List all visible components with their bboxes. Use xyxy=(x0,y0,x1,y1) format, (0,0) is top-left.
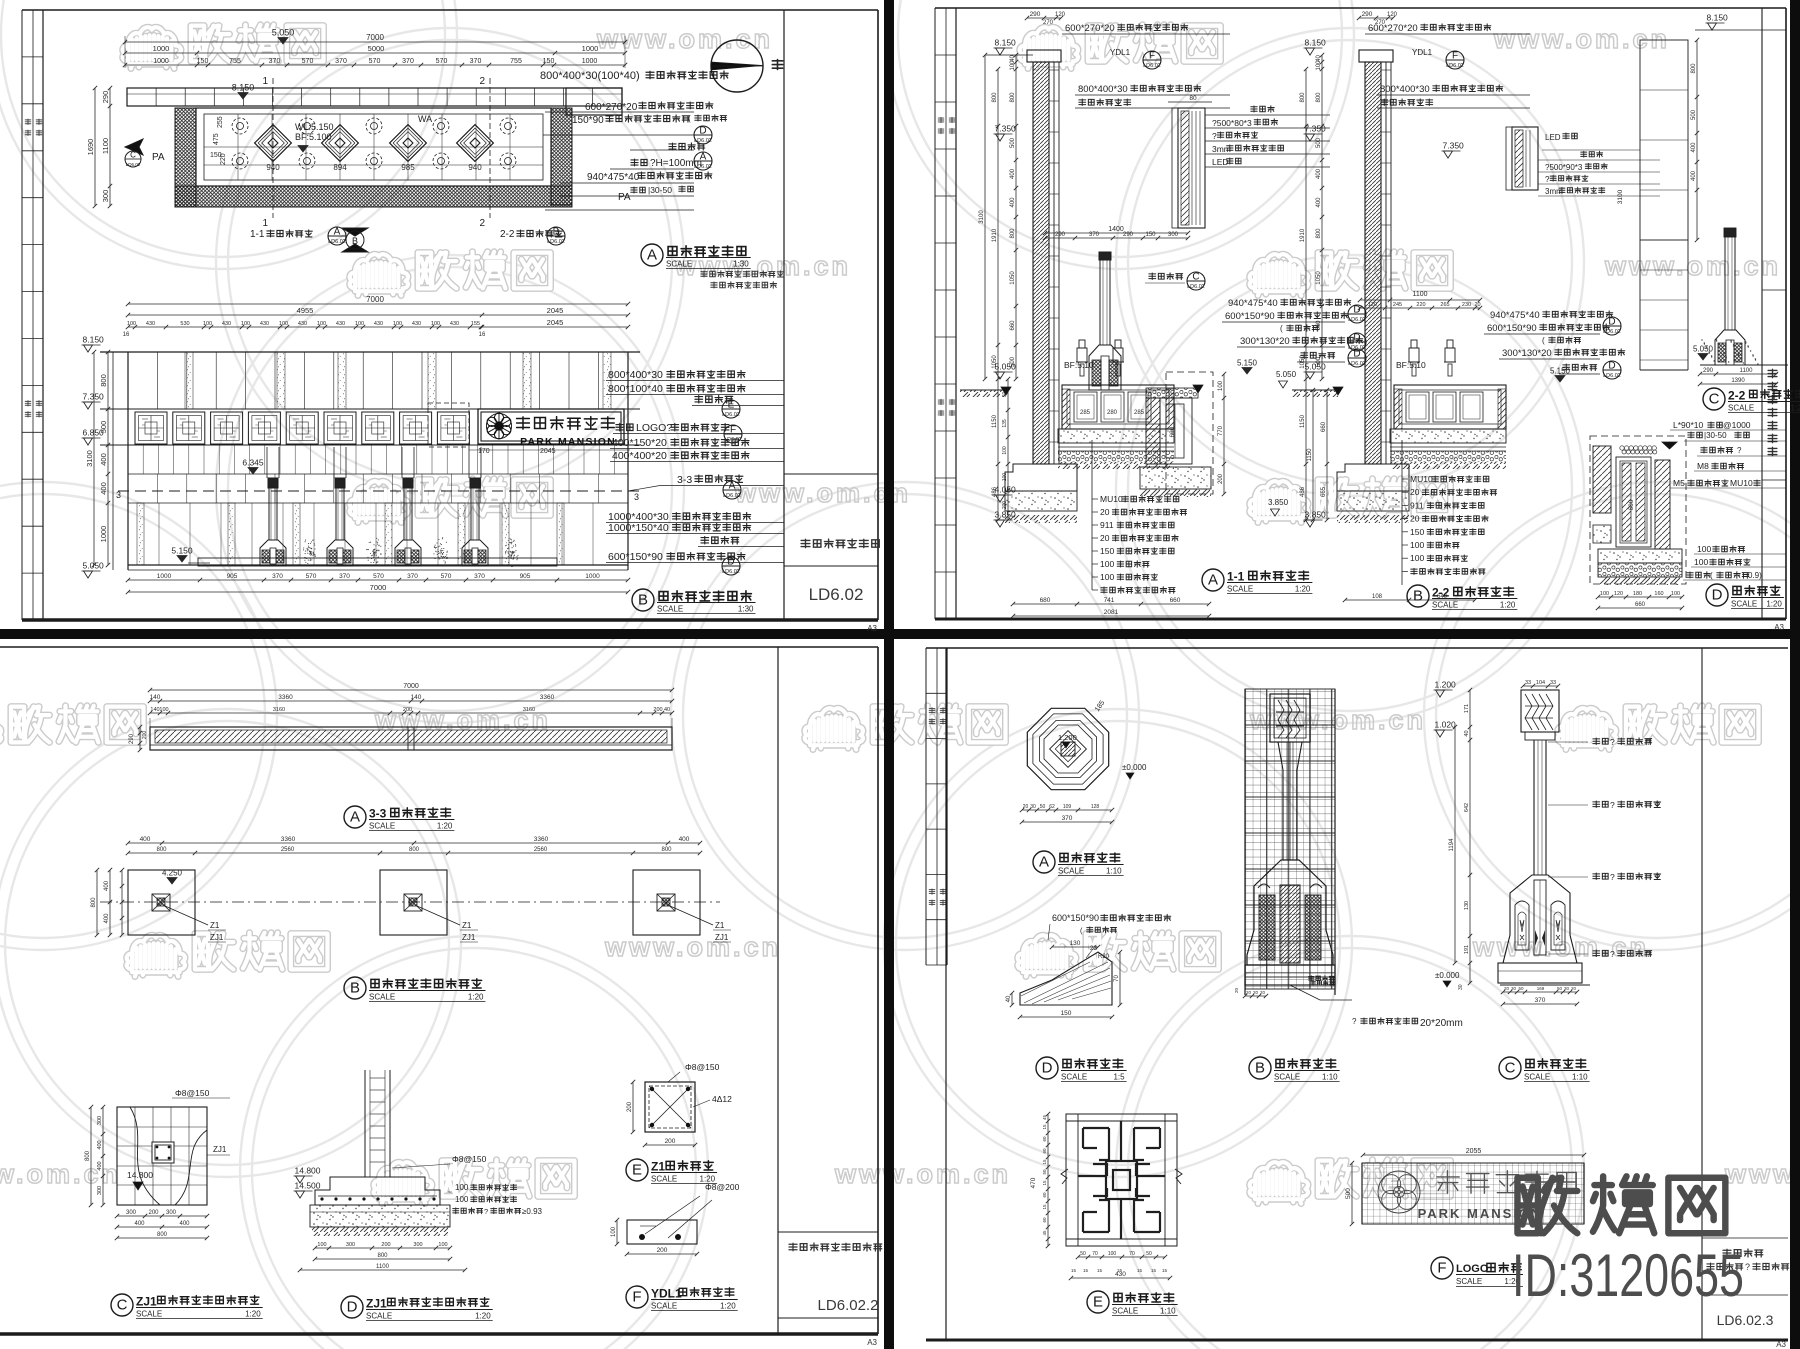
svg-text:800*400*30: 800*400*30 xyxy=(1380,84,1430,95)
svg-text:475: 475 xyxy=(213,133,220,145)
svg-text:100: 100 xyxy=(159,707,168,713)
svg-text:1400: 1400 xyxy=(1108,226,1124,233)
svg-text:?: ? xyxy=(1212,131,1217,141)
svg-text:940*475*40: 940*475*40 xyxy=(1490,310,1540,321)
svg-text:3160: 3160 xyxy=(523,707,535,713)
svg-text:800: 800 xyxy=(661,847,672,853)
svg-text:A: A xyxy=(1208,572,1218,589)
svg-text:SCALE: SCALE xyxy=(136,1310,162,1319)
svg-text:285: 285 xyxy=(1080,410,1091,416)
svg-text:www.om.cn: www.om.cn xyxy=(1724,1159,1800,1189)
svg-text:430: 430 xyxy=(336,321,345,327)
svg-text:270: 270 xyxy=(1043,20,1054,26)
svg-text:D: D xyxy=(1608,361,1615,372)
svg-text:290: 290 xyxy=(1030,11,1041,18)
svg-text:500: 500 xyxy=(99,421,108,434)
svg-text:2-2: 2-2 xyxy=(500,229,515,240)
svg-text:660: 660 xyxy=(1316,320,1322,331)
svg-text:370: 370 xyxy=(1535,997,1546,1004)
svg-text:800: 800 xyxy=(1316,92,1322,103)
svg-text:100: 100 xyxy=(455,1183,469,1192)
svg-text:LD6.02: LD6.02 xyxy=(547,239,565,245)
svg-text:D: D xyxy=(1042,1060,1053,1077)
svg-text:60: 60 xyxy=(1042,1148,1047,1154)
svg-text:SCALE: SCALE xyxy=(651,1175,677,1184)
svg-text:LD6.02: LD6.02 xyxy=(809,585,864,604)
svg-text:400: 400 xyxy=(134,1221,145,1227)
svg-text:2045: 2045 xyxy=(547,306,564,315)
svg-text:1390: 1390 xyxy=(1731,378,1745,384)
svg-text:800: 800 xyxy=(156,847,167,853)
svg-text:MU10: MU10 xyxy=(1100,494,1123,504)
svg-text:?: ? xyxy=(1745,1262,1750,1272)
svg-text:741: 741 xyxy=(1104,597,1115,604)
svg-text:200: 200 xyxy=(665,1138,676,1145)
svg-text:1:30: 1:30 xyxy=(733,260,749,269)
svg-text:400: 400 xyxy=(1691,142,1697,153)
svg-text:130: 130 xyxy=(1070,940,1081,947)
svg-text:905: 905 xyxy=(520,573,531,580)
svg-text:500: 500 xyxy=(1316,356,1322,367)
svg-text:MU10: MU10 xyxy=(1410,474,1433,484)
svg-text:A3: A3 xyxy=(867,1338,877,1347)
svg-text:400: 400 xyxy=(140,836,151,843)
svg-text:30: 30 xyxy=(1511,986,1517,991)
svg-text:3360: 3360 xyxy=(534,836,549,843)
svg-text:300*130*20: 300*130*20 xyxy=(1240,336,1290,347)
svg-text:1: 1 xyxy=(262,218,268,229)
svg-text:400: 400 xyxy=(1316,197,1322,208)
svg-text:20: 20 xyxy=(1504,986,1510,991)
svg-text:1: 1 xyxy=(262,76,268,87)
svg-text:B: B xyxy=(638,592,648,609)
svg-text:20: 20 xyxy=(1100,507,1110,517)
svg-text:370: 370 xyxy=(335,58,347,65)
svg-text:680: 680 xyxy=(1040,597,1051,604)
svg-text:150*90: 150*90 xyxy=(572,115,604,126)
svg-text:400: 400 xyxy=(179,1221,190,1227)
svg-text:3: 3 xyxy=(116,490,121,500)
svg-text:?: ? xyxy=(1610,949,1615,959)
svg-text:3.850: 3.850 xyxy=(1268,498,1289,507)
svg-text:50: 50 xyxy=(1040,804,1046,810)
svg-text:15: 15 xyxy=(1042,1159,1047,1165)
svg-text:SCALE: SCALE xyxy=(1058,867,1084,876)
svg-text:1:20: 1:20 xyxy=(1766,600,1782,609)
svg-text:15: 15 xyxy=(1042,1124,1047,1130)
svg-text:100: 100 xyxy=(1002,446,1008,455)
svg-text:430: 430 xyxy=(222,321,231,327)
svg-text:100: 100 xyxy=(1100,572,1114,582)
svg-text:370: 370 xyxy=(474,573,485,580)
svg-text:200: 200 xyxy=(657,1247,668,1254)
svg-text:LD6.02: LD6.02 xyxy=(1143,63,1161,69)
svg-text:600: 600 xyxy=(1628,499,1635,510)
svg-text:400: 400 xyxy=(97,1140,103,1149)
svg-text:245: 245 xyxy=(1393,302,1402,308)
svg-text:8.150: 8.150 xyxy=(1305,38,1327,48)
svg-text:3360: 3360 xyxy=(278,694,293,701)
svg-text:SCALE: SCALE xyxy=(1227,585,1253,594)
svg-text:7000: 7000 xyxy=(366,33,384,42)
svg-text:ZJ1: ZJ1 xyxy=(213,1145,227,1154)
svg-text:570: 570 xyxy=(306,573,317,580)
svg-text:200: 200 xyxy=(653,707,662,713)
svg-text:?: ? xyxy=(484,1207,488,1216)
svg-text:8.150: 8.150 xyxy=(232,83,255,93)
svg-text:100: 100 xyxy=(355,321,364,327)
svg-text:L*90*10: L*90*10 xyxy=(1673,420,1704,430)
svg-text:300: 300 xyxy=(97,1116,103,1125)
svg-text:A3: A3 xyxy=(867,624,877,633)
svg-text:430: 430 xyxy=(146,321,155,327)
svg-text:2-2: 2-2 xyxy=(1728,389,1746,403)
svg-text:200: 200 xyxy=(403,707,412,713)
svg-text:SCALE: SCALE xyxy=(1728,404,1754,413)
svg-text:600*150*90: 600*150*90 xyxy=(1225,311,1275,322)
svg-text:1050: 1050 xyxy=(1010,271,1016,285)
svg-text:500: 500 xyxy=(1010,137,1016,148)
svg-text:570: 570 xyxy=(302,58,314,65)
svg-text:755: 755 xyxy=(229,58,241,65)
svg-text:?: ? xyxy=(1545,175,1550,184)
svg-text:M8: M8 xyxy=(1697,461,1709,471)
svg-text:255: 255 xyxy=(217,116,224,128)
svg-text:ZJ1: ZJ1 xyxy=(136,1295,157,1309)
svg-text:A3: A3 xyxy=(1776,1340,1786,1349)
svg-text:D: D xyxy=(1712,587,1723,604)
svg-text:2: 2 xyxy=(479,218,485,229)
svg-text:1050: 1050 xyxy=(1300,355,1306,369)
svg-text:C: C xyxy=(130,151,136,160)
svg-text:370: 370 xyxy=(470,58,482,65)
svg-text:500: 500 xyxy=(1010,356,1016,367)
svg-text:911: 911 xyxy=(1100,520,1114,530)
svg-text:F: F xyxy=(632,1289,641,1306)
svg-text:1:20: 1:20 xyxy=(245,1310,261,1319)
svg-text:1:10: 1:10 xyxy=(1106,867,1122,876)
svg-text:|30-50: |30-50 xyxy=(1704,431,1727,440)
svg-text:600*150*90: 600*150*90 xyxy=(608,551,663,563)
svg-text:LD6.02: LD6.02 xyxy=(1446,63,1464,69)
svg-text:100: 100 xyxy=(1316,60,1322,71)
svg-text:1:20: 1:20 xyxy=(475,1312,491,1321)
svg-text:33: 33 xyxy=(1550,680,1556,686)
svg-text:D: D xyxy=(1353,333,1360,344)
svg-text:100: 100 xyxy=(455,1195,469,1204)
svg-text:E: E xyxy=(632,1162,642,1179)
svg-text:LD6.02: LD6.02 xyxy=(328,239,346,245)
svg-text:LD6.02: LD6.02 xyxy=(722,569,740,575)
svg-text:170: 170 xyxy=(478,448,490,455)
svg-text:LD6.02: LD6.02 xyxy=(1603,373,1621,379)
svg-text:1100: 1100 xyxy=(101,138,110,154)
svg-text:SCALE: SCALE xyxy=(369,993,395,1002)
svg-text:40: 40 xyxy=(1006,995,1012,1002)
svg-text:600*150*90: 600*150*90 xyxy=(1487,323,1537,334)
svg-text:60: 60 xyxy=(1042,1192,1047,1198)
svg-text:430: 430 xyxy=(450,321,459,327)
svg-text:800: 800 xyxy=(1691,63,1697,74)
svg-text:770: 770 xyxy=(1218,425,1224,436)
svg-text:1000: 1000 xyxy=(585,573,600,580)
svg-text:20: 20 xyxy=(1410,487,1420,497)
svg-text:B: B xyxy=(352,236,358,246)
svg-text:1-1: 1-1 xyxy=(1227,570,1245,584)
svg-text:3160: 3160 xyxy=(273,707,285,713)
svg-text:30: 30 xyxy=(1030,804,1036,810)
svg-text:?: ? xyxy=(1610,800,1615,810)
svg-text:200: 200 xyxy=(381,1242,390,1248)
svg-text:800*400*30: 800*400*30 xyxy=(608,369,663,381)
svg-text:2-2: 2-2 xyxy=(1432,586,1450,600)
svg-text:570: 570 xyxy=(369,58,381,65)
svg-text:30: 30 xyxy=(1458,984,1464,990)
svg-text:SCALE: SCALE xyxy=(366,1312,392,1321)
svg-text:45: 45 xyxy=(1042,1115,1047,1121)
svg-text:ID:3120655: ID:3120655 xyxy=(1512,1242,1744,1309)
svg-text:LD6.02: LD6.02 xyxy=(1348,317,1366,323)
svg-text:1690: 1690 xyxy=(86,139,95,156)
svg-text:100: 100 xyxy=(1410,540,1424,550)
svg-text:1:5: 1:5 xyxy=(1113,1073,1125,1082)
svg-text:40: 40 xyxy=(1464,730,1470,736)
svg-text:15: 15 xyxy=(1097,1268,1103,1273)
svg-text:20: 20 xyxy=(1253,990,1259,995)
svg-text:3100: 3100 xyxy=(979,210,985,224)
svg-text:70: 70 xyxy=(1092,1251,1098,1257)
svg-text:800: 800 xyxy=(1010,228,1016,239)
svg-text:370: 370 xyxy=(269,58,281,65)
svg-text:5.150: 5.150 xyxy=(1550,367,1571,376)
svg-text:ZJ1: ZJ1 xyxy=(715,933,729,942)
svg-text:660: 660 xyxy=(1635,602,1646,608)
svg-text:1:20: 1:20 xyxy=(437,822,453,831)
svg-text:F: F xyxy=(1452,51,1458,62)
svg-text:2560: 2560 xyxy=(534,847,548,853)
svg-text:1:20: 1:20 xyxy=(1500,601,1516,610)
svg-text:YDL1: YDL1 xyxy=(1412,48,1433,57)
svg-text:SCALE: SCALE xyxy=(1524,1073,1550,1082)
svg-text:155: 155 xyxy=(471,321,480,327)
svg-text:600*270*20: 600*270*20 xyxy=(585,102,638,113)
svg-text:894: 894 xyxy=(333,163,347,172)
svg-text:LD6.02: LD6.02 xyxy=(1348,361,1366,367)
svg-text:2081: 2081 xyxy=(1104,609,1119,616)
svg-text:SCALE: SCALE xyxy=(1731,600,1757,609)
svg-text:940*475*40: 940*475*40 xyxy=(1228,298,1278,309)
svg-text:130: 130 xyxy=(1464,901,1470,910)
svg-text:400*150*20: 400*150*20 xyxy=(612,437,667,449)
svg-text:ZJ1: ZJ1 xyxy=(462,933,476,942)
svg-text:PARK MANSION: PARK MANSION xyxy=(520,436,616,448)
svg-text:800: 800 xyxy=(85,1150,91,1161)
svg-text:500: 500 xyxy=(1316,137,1322,148)
svg-text:MU10: MU10 xyxy=(1730,478,1753,488)
svg-text:3100: 3100 xyxy=(1617,189,1624,204)
svg-text:A: A xyxy=(647,247,657,264)
svg-text:1:20: 1:20 xyxy=(468,993,484,1002)
svg-text:Φ8@150: Φ8@150 xyxy=(685,1062,720,1072)
svg-text:300: 300 xyxy=(413,1242,422,1248)
svg-text:D: D xyxy=(1608,317,1615,328)
svg-text:50: 50 xyxy=(1518,986,1524,991)
svg-text:140: 140 xyxy=(150,694,161,701)
svg-text:400: 400 xyxy=(1691,170,1697,181)
svg-text:2055: 2055 xyxy=(1466,1148,1482,1155)
svg-text:100: 100 xyxy=(438,1242,447,1248)
svg-text:ZJ1: ZJ1 xyxy=(210,933,224,942)
svg-text:400: 400 xyxy=(99,482,108,495)
svg-text:20: 20 xyxy=(1260,990,1266,995)
svg-text:200: 200 xyxy=(1218,473,1224,484)
svg-text:7.350: 7.350 xyxy=(83,392,105,402)
svg-text:(: ( xyxy=(1280,324,1283,333)
svg-text:220: 220 xyxy=(1416,302,1425,308)
svg-text:2045: 2045 xyxy=(547,318,564,327)
svg-text:400: 400 xyxy=(104,880,110,891)
svg-text:C: C xyxy=(1505,1060,1516,1077)
svg-text:1000: 1000 xyxy=(153,58,169,65)
svg-text:1.200: 1.200 xyxy=(1435,680,1457,690)
svg-text:?: ? xyxy=(1352,1017,1357,1026)
svg-text:109: 109 xyxy=(1063,804,1072,810)
svg-text:1.200: 1.200 xyxy=(1058,733,1077,742)
svg-text:8.150: 8.150 xyxy=(83,335,105,345)
svg-text:100: 100 xyxy=(279,321,288,327)
svg-text:|30-50: |30-50 xyxy=(648,185,672,195)
svg-text:15: 15 xyxy=(1042,1180,1047,1186)
svg-text:600*150*90: 600*150*90 xyxy=(1052,913,1099,923)
svg-text:100: 100 xyxy=(1671,591,1680,597)
svg-text:1100: 1100 xyxy=(376,1264,390,1270)
svg-text:4.250: 4.250 xyxy=(162,869,183,878)
svg-text:R20: R20 xyxy=(1098,954,1110,960)
svg-text:C: C xyxy=(117,1297,128,1314)
svg-text:665: 665 xyxy=(1321,486,1327,497)
svg-text:400: 400 xyxy=(104,913,110,924)
svg-text:20: 20 xyxy=(1246,990,1252,995)
svg-text:8.150: 8.150 xyxy=(995,38,1017,48)
svg-text:5000: 5000 xyxy=(368,44,385,53)
svg-text:5.150: 5.150 xyxy=(1237,359,1258,368)
svg-text:?500*80*3: ?500*80*3 xyxy=(1212,118,1252,128)
svg-text:530: 530 xyxy=(180,321,189,327)
svg-text:SCALE: SCALE xyxy=(1274,1073,1300,1082)
svg-text:280: 280 xyxy=(1107,410,1118,416)
svg-text:14.500: 14.500 xyxy=(295,1181,321,1191)
svg-text:50: 50 xyxy=(1146,1251,1152,1257)
svg-text:8.150: 8.150 xyxy=(1707,13,1729,23)
svg-text:200: 200 xyxy=(627,1101,633,1112)
svg-text:120: 120 xyxy=(1614,591,1623,597)
svg-text:500: 500 xyxy=(1691,109,1697,120)
svg-text:290: 290 xyxy=(101,91,110,104)
svg-text:985: 985 xyxy=(401,163,415,172)
svg-text:62: 62 xyxy=(1049,804,1055,810)
svg-text:SCALE: SCALE xyxy=(369,822,395,831)
svg-text:14.800: 14.800 xyxy=(295,1166,321,1176)
svg-text:169: 169 xyxy=(1537,986,1545,991)
svg-text:B: B xyxy=(1413,588,1423,605)
svg-text:LOGO: LOGO xyxy=(1456,1263,1489,1275)
svg-text:PA: PA xyxy=(618,192,631,203)
svg-text:1150: 1150 xyxy=(1300,414,1306,428)
svg-text:171: 171 xyxy=(1464,704,1470,713)
svg-text:LD6.02: LD6.02 xyxy=(1603,329,1621,335)
svg-text:2560: 2560 xyxy=(281,847,295,853)
svg-text:100: 100 xyxy=(1600,591,1609,597)
svg-text:2: 2 xyxy=(479,76,485,87)
svg-text:4955: 4955 xyxy=(297,306,314,315)
svg-text:±0.000: ±0.000 xyxy=(1435,971,1460,980)
svg-text:B: B xyxy=(1255,1060,1265,1077)
svg-text:SCALE: SCALE xyxy=(1432,601,1458,610)
svg-text:?: ? xyxy=(1610,872,1615,882)
svg-text:3360: 3360 xyxy=(540,694,555,701)
svg-text:LD6.02: LD6.02 xyxy=(723,493,741,499)
svg-text:5.150: 5.150 xyxy=(171,546,193,556)
svg-text:16: 16 xyxy=(123,332,130,338)
svg-text:F: F xyxy=(1437,1260,1446,1277)
svg-text:(: ( xyxy=(1542,336,1545,345)
svg-text:120: 120 xyxy=(1387,12,1398,18)
svg-text:PA: PA xyxy=(152,152,165,163)
svg-text:YDL1: YDL1 xyxy=(651,1287,682,1301)
svg-text:LD6.02.3: LD6.02.3 xyxy=(1717,1312,1774,1328)
svg-text:www.om.cn: www.om.cn xyxy=(1493,24,1670,54)
svg-text:430: 430 xyxy=(1115,1271,1126,1278)
svg-text:LED: LED xyxy=(1212,157,1229,167)
svg-text:?500*90*3: ?500*90*3 xyxy=(1545,163,1583,172)
svg-text:1:20: 1:20 xyxy=(1791,404,1800,413)
svg-text:100: 100 xyxy=(1010,60,1016,71)
svg-text:100: 100 xyxy=(1108,1251,1117,1257)
svg-text:128: 128 xyxy=(1091,804,1100,810)
svg-text:16: 16 xyxy=(479,332,486,338)
svg-text:100: 100 xyxy=(611,1226,617,1237)
svg-text:1100: 1100 xyxy=(1412,291,1427,298)
svg-text:A: A xyxy=(729,481,736,492)
svg-text:50: 50 xyxy=(1080,1251,1086,1257)
svg-text:800*400*30: 800*400*30 xyxy=(1078,84,1128,95)
svg-text:www.om.cn: www.om.cn xyxy=(596,24,773,54)
svg-text:20*20mm: 20*20mm xyxy=(1420,1018,1463,1029)
svg-text:YDL1: YDL1 xyxy=(1110,48,1131,57)
svg-text:100: 100 xyxy=(1694,557,1708,567)
svg-text:905: 905 xyxy=(227,573,238,580)
svg-text:400: 400 xyxy=(1316,168,1322,179)
svg-text:15: 15 xyxy=(1162,1268,1168,1273)
svg-text:500: 500 xyxy=(1345,1188,1352,1199)
svg-text:4Δ12: 4Δ12 xyxy=(712,1094,732,1104)
svg-text:800: 800 xyxy=(157,1232,168,1238)
svg-text:370: 370 xyxy=(272,573,283,580)
svg-text:265: 265 xyxy=(1440,302,1449,308)
svg-text:120: 120 xyxy=(1055,12,1066,18)
svg-text:1:10: 1:10 xyxy=(1322,1073,1338,1082)
svg-text:LD6.02: LD6.02 xyxy=(126,162,141,167)
svg-text:800: 800 xyxy=(1010,92,1016,103)
svg-text:3-3: 3-3 xyxy=(369,807,387,821)
svg-text:15: 15 xyxy=(1083,1268,1089,1273)
svg-text:430: 430 xyxy=(374,321,383,327)
svg-text:1:10: 1:10 xyxy=(1160,1307,1176,1316)
svg-text:Z1: Z1 xyxy=(210,921,220,930)
svg-text:33: 33 xyxy=(1525,680,1531,686)
svg-text:2045: 2045 xyxy=(540,448,556,455)
svg-text:100: 100 xyxy=(1218,380,1224,391)
